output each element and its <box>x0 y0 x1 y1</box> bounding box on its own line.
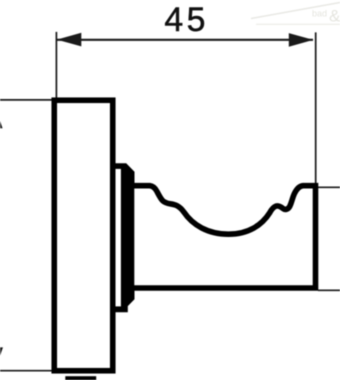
svg-text:&: & <box>329 7 340 26</box>
svg-text:45: 45 <box>164 1 209 39</box>
svg-text:bad: bad <box>312 9 327 19</box>
